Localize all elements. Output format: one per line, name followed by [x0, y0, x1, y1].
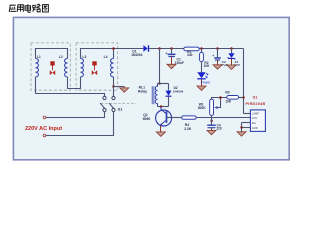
diode D2 1N4004: [166, 84, 172, 107]
resistor 1M in box 1: [50, 61, 55, 75]
svg-text:L1: L1: [37, 55, 41, 59]
node relay feed: [158, 47, 161, 50]
应: [9, 5, 16, 12]
capacitor C2 47uF: [212, 49, 221, 65]
resistor 1M in box 2: [92, 61, 97, 75]
wire L3 top through L4 to D1 anode: [81, 49, 144, 59]
ground U1: [237, 132, 246, 136]
wire U-link L2 bottom to L3 bottom: [68, 77, 81, 89]
wire L4 bottom to junction: [113, 77, 115, 87]
wire relay/D2 bottom bar: [158, 106, 169, 108]
ground LED: [197, 86, 206, 90]
wire L4 top stub: [113, 49, 115, 59]
svg-text:LAMP: LAMP: [252, 112, 259, 116]
schematic frame: [13, 17, 289, 159]
svg-text:Relay: Relay: [138, 90, 147, 94]
wire R3 right to rail node: [239, 97, 244, 99]
switch S1 contacts: [100, 96, 115, 111]
svg-text:L2: L2: [59, 55, 63, 59]
svg-text:+: +: [212, 54, 214, 58]
filter dashed box 2: [76, 43, 118, 90]
svg-text:1N4004: 1N4004: [173, 90, 184, 94]
svg-text:300K: 300K: [198, 106, 207, 110]
svg-text:10K: 10K: [225, 100, 232, 104]
node Z1 tap: [230, 47, 233, 50]
svg-text:240: 240: [187, 53, 193, 57]
wire D1 cathode to rail corner: [149, 48, 243, 50]
wire L1 top to L2 top: [36, 49, 68, 59]
svg-text:Dst: Dst: [252, 121, 256, 125]
svg-text:S1: S1: [118, 107, 123, 111]
svg-text:PIRD204B: PIRD204B: [246, 102, 266, 106]
relay RL1 coil: [152, 84, 157, 107]
wire S1 pole1 to AC terminal 1: [46, 111, 105, 117]
wire +V rail down to R3 node: [243, 49, 245, 114]
svg-text:GND: GND: [252, 126, 258, 130]
svg-text:+: +: [165, 51, 167, 55]
zener Z1 3.6V: [228, 49, 236, 66]
svg-text:8050: 8050: [143, 117, 151, 121]
svg-text:L3: L3: [82, 55, 86, 59]
wire R4 to U1 pin2: [196, 117, 250, 119]
svg-text:R3: R3: [225, 91, 229, 95]
wire S1 pole2 to AC terminal 2: [46, 111, 114, 135]
node L4 top junction: [112, 47, 115, 50]
svg-text:L4: L4: [104, 55, 108, 59]
capacitor C1 100uF: [165, 49, 175, 65]
node L4 bottom junction: [112, 85, 115, 88]
wire relay feed drop: [159, 49, 161, 84]
ground C1: [167, 64, 176, 68]
图: [42, 5, 48, 12]
terminal AC 2: [43, 134, 46, 137]
wire L1 bottom to switch S1 pole 1: [36, 77, 105, 97]
resistor R1 240: [184, 47, 199, 51]
potentiometer W1 500K: [210, 98, 227, 118]
电: [25, 4, 31, 12]
svg-text:VCC: VCC: [252, 116, 258, 120]
svg-text:2.2K: 2.2K: [184, 127, 192, 131]
wire junction to ground: [114, 86, 125, 88]
capacitor C4 223: [207, 118, 216, 131]
wire relay/D2 top bar: [158, 83, 169, 85]
node relay top junction: [158, 82, 161, 85]
ground Q1 emitter: [156, 132, 165, 137]
node C1 tap: [170, 47, 173, 50]
node collector junction: [160, 105, 163, 108]
wire Q1 base to R4: [167, 117, 182, 119]
svg-text:1N4004: 1N4004: [131, 53, 142, 57]
svg-text:223: 223: [216, 127, 222, 131]
resistor R2 10K: [200, 49, 204, 73]
svg-text:Power: Power: [201, 80, 211, 84]
diode D1 1N4004: [143, 45, 148, 51]
inductor L4: [111, 59, 114, 77]
ground Z1: [227, 65, 236, 69]
filter dashed box 1: [31, 43, 70, 90]
transistor Q1 8050: [156, 107, 172, 132]
inductor L1: [36, 59, 39, 77]
ground C2: [213, 65, 222, 69]
svg-text:U1: U1: [253, 96, 258, 100]
ground C4: [207, 130, 216, 134]
node C2 tap: [216, 47, 219, 50]
node R2 tap: [200, 47, 203, 50]
resistor R4 2.2K: [182, 116, 197, 119]
用: [17, 5, 23, 12]
ground at L4 junction: [120, 88, 129, 92]
dashed link S1 to relay: [101, 102, 136, 104]
LED Power: [197, 72, 208, 86]
inductor L2: [65, 59, 68, 77]
svg-text:220V AC Input: 220V AC Input: [25, 126, 62, 132]
terminal AC 1: [43, 116, 46, 119]
title 应用电路图 (drawn strokes): [9, 4, 48, 12]
resistor R3 10K: [227, 96, 239, 100]
node R3/rail junction: [242, 96, 245, 99]
wire junction to switch S1 pole 2: [113, 87, 115, 97]
路: [33, 4, 41, 12]
IC U1 PIR D204B: [240, 110, 265, 132]
node W1/C4 junction: [210, 119, 213, 122]
inductor L3: [81, 59, 84, 77]
svg-text:10K: 10K: [204, 64, 211, 68]
